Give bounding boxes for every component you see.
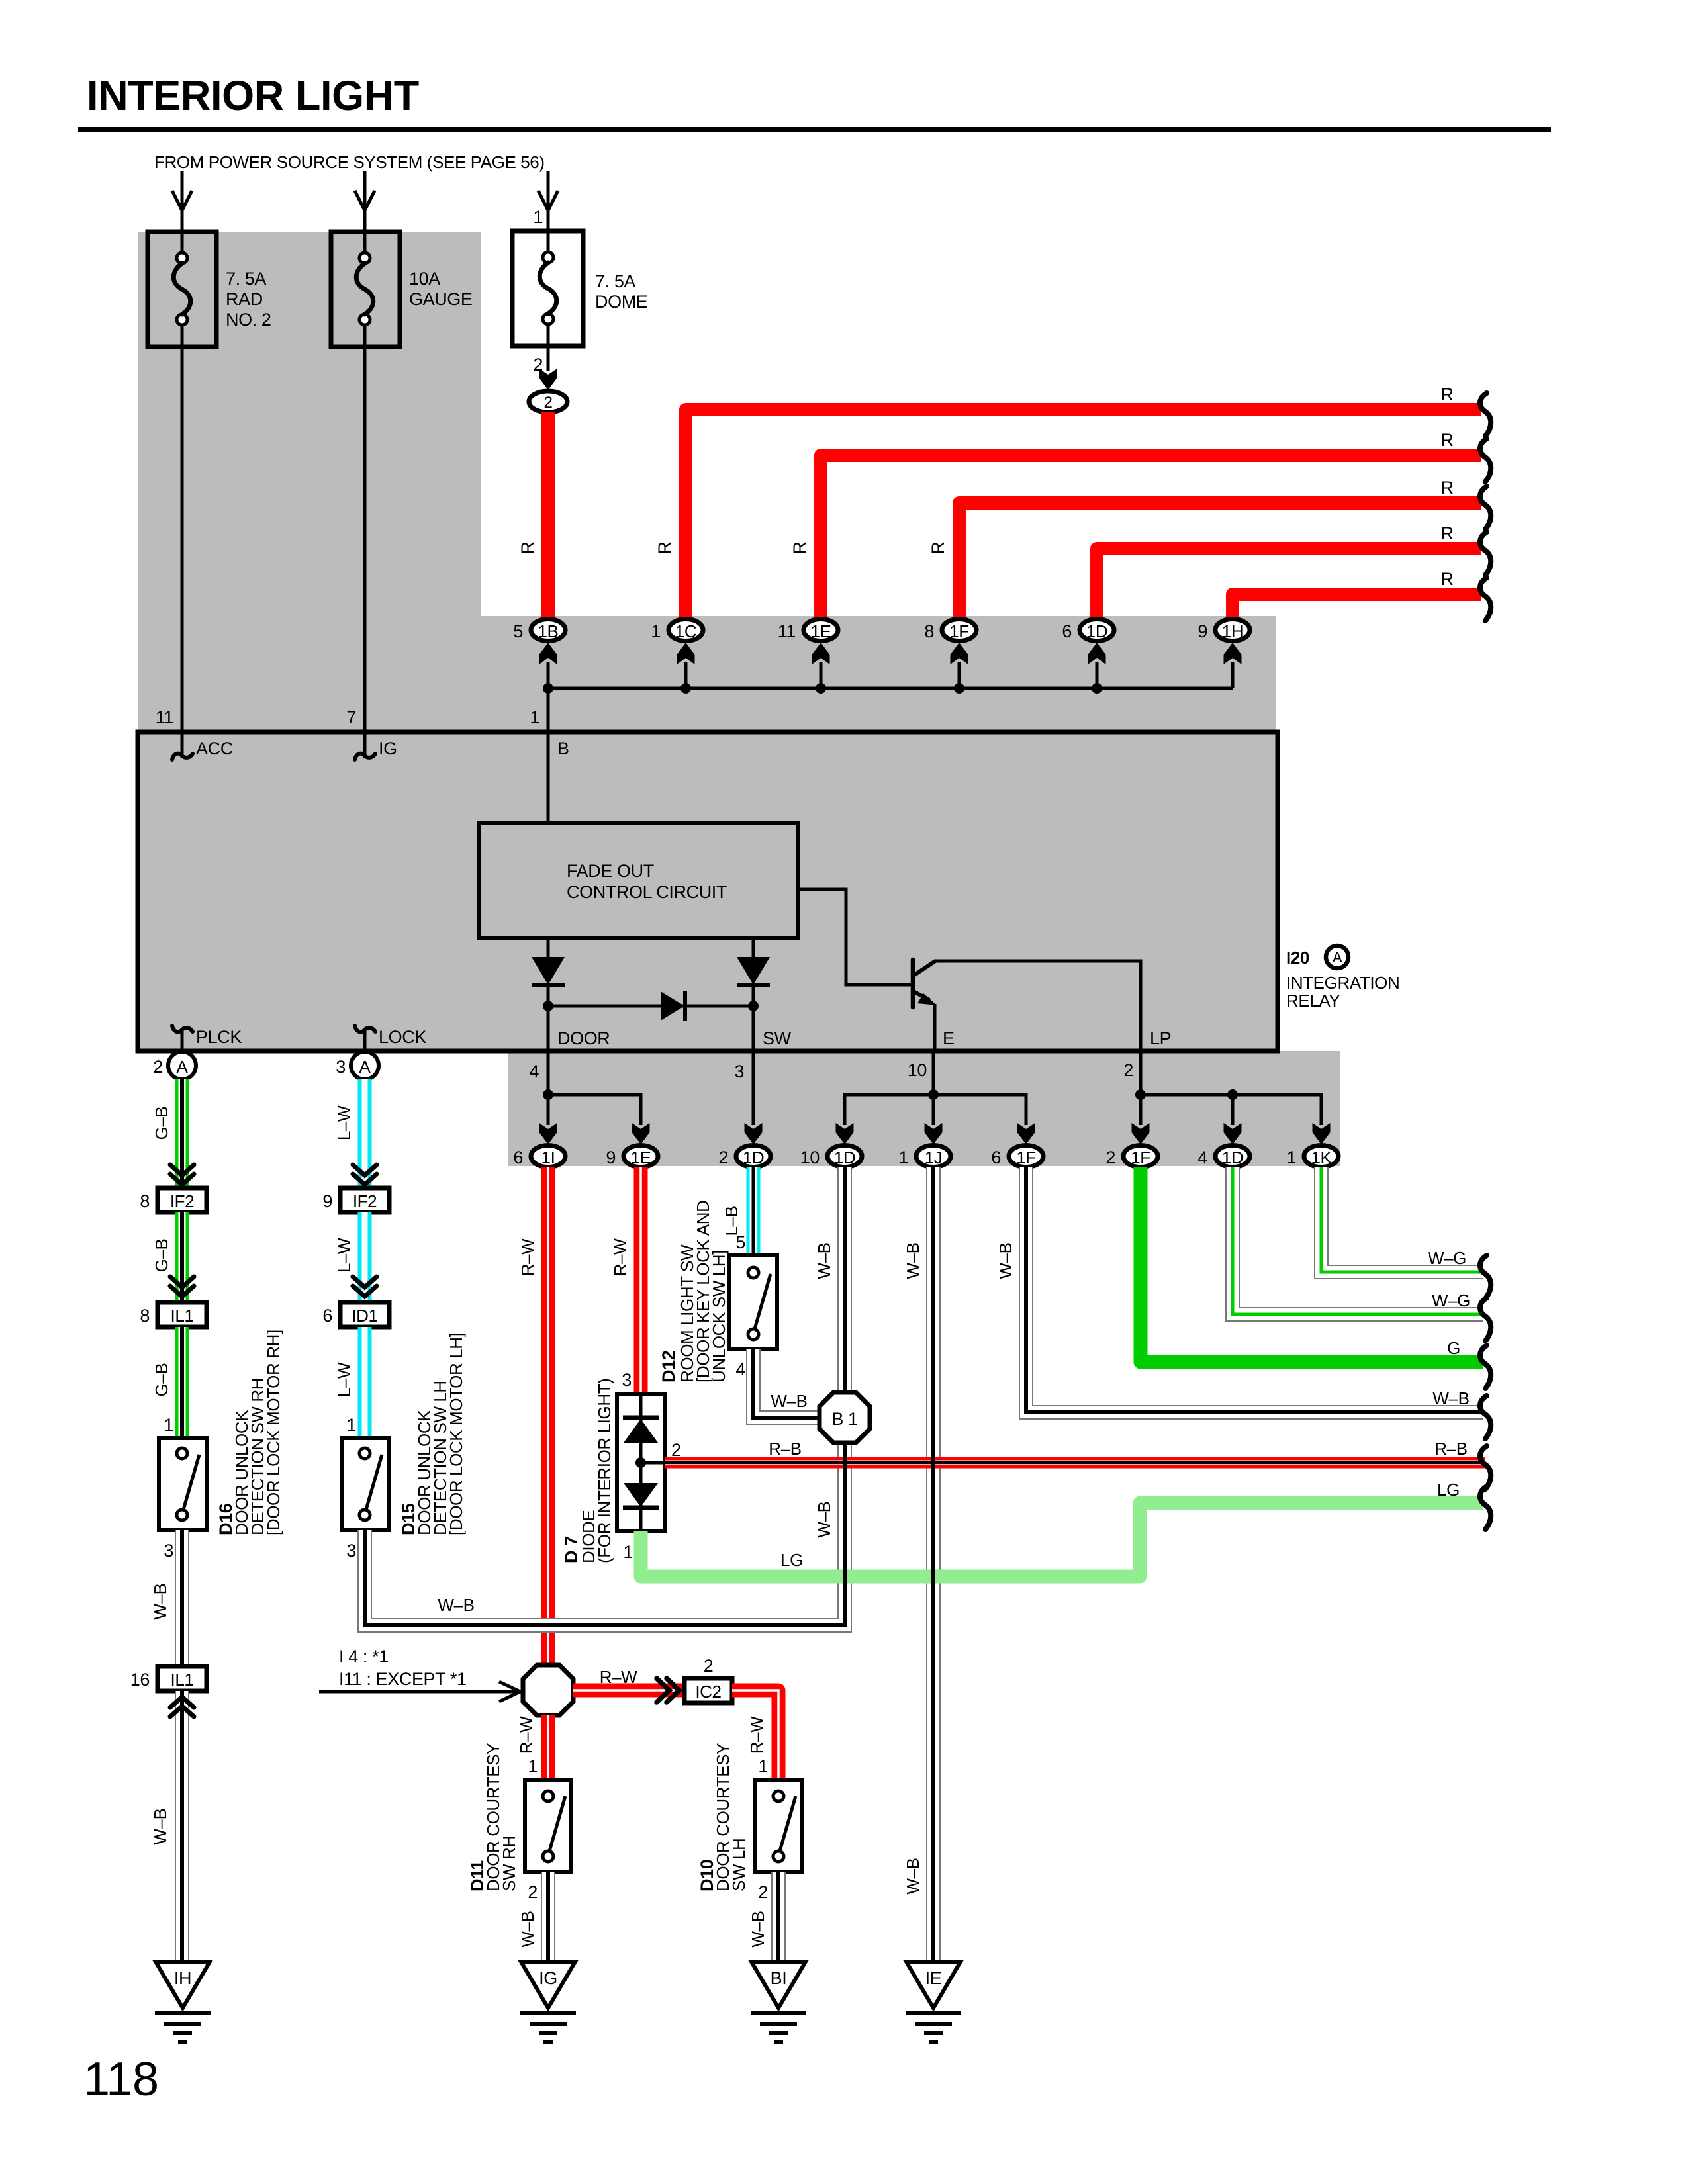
pin curl PLCK	[181, 1030, 184, 1051]
arrow into 1H	[1224, 643, 1242, 664]
connector 6 1D	[1062, 619, 1114, 642]
svg-text:W–B: W–B	[814, 1501, 834, 1537]
arrow into 1I	[539, 1123, 557, 1144]
wire R 1C branch	[686, 410, 1481, 622]
svg-text:1: 1	[623, 1542, 633, 1562]
wire R-W splice to D11	[541, 1715, 555, 1780]
connector 8 1F	[924, 619, 976, 642]
pigtail brace LG	[1480, 1486, 1491, 1529]
svg-text:6: 6	[322, 1306, 332, 1326]
junction dot LP branch	[1135, 1089, 1146, 1100]
svg-text:1K: 1K	[1311, 1148, 1332, 1167]
svg-text:1D: 1D	[743, 1148, 764, 1167]
wire R-W splice to IC2	[573, 1684, 684, 1698]
svg-text:9: 9	[322, 1191, 332, 1211]
svg-text:1J: 1J	[925, 1148, 943, 1167]
svg-text:3: 3	[346, 1541, 356, 1561]
svg-text:BI: BI	[771, 1968, 787, 1988]
svg-text:IL1: IL1	[171, 1306, 194, 1326]
switch D16 door unlock detection SW RH	[159, 1438, 207, 1530]
wire R 1D branch	[1097, 549, 1481, 622]
svg-text:W–B: W–B	[1432, 1388, 1469, 1408]
wire LP branch	[1141, 1051, 1321, 1125]
pigtail brace R3	[1480, 486, 1491, 529]
svg-text:R–W: R–W	[747, 1716, 767, 1754]
svg-text:R: R	[928, 541, 948, 554]
svg-text:ACC: ACC	[196, 739, 233, 758]
svg-text:1F: 1F	[1131, 1148, 1150, 1167]
svg-text:IF2: IF2	[170, 1191, 194, 1211]
wire power feed to fuse RAD	[172, 171, 192, 232]
chevron marker col A 2	[170, 1277, 194, 1297]
arrow into 1D sw	[745, 1123, 763, 1144]
svg-text:W–B: W–B	[996, 1242, 1015, 1279]
wire E branch	[845, 1051, 1026, 1125]
arrow into 1E	[812, 643, 830, 664]
svg-text:RAD: RAD	[226, 289, 263, 309]
svg-text:D12: D12	[659, 1351, 679, 1383]
chevron marker col A 1	[170, 1165, 194, 1185]
wire R 1F branch	[959, 503, 1481, 622]
transistor Q relay	[913, 960, 937, 1007]
arrow into 1D lp	[1224, 1123, 1242, 1144]
svg-text:W–B: W–B	[771, 1391, 807, 1411]
svg-text:W–G: W–G	[1428, 1248, 1466, 1268]
junction dot SW link	[748, 1001, 759, 1011]
arrow into 1C	[677, 643, 695, 664]
svg-text:1F: 1F	[949, 621, 969, 641]
svg-text:11: 11	[778, 621, 796, 641]
svg-text:B: B	[557, 739, 569, 758]
arrow to splice	[319, 1682, 520, 1702]
junction block 16 IL1	[130, 1666, 207, 1691]
svg-text:5: 5	[513, 621, 523, 641]
arrow into 1F	[951, 643, 968, 664]
svg-text:8: 8	[140, 1191, 150, 1211]
svg-text:IG: IG	[539, 1968, 557, 1988]
junction dot LP branch 2	[1227, 1089, 1238, 1100]
connector 9 1E	[606, 1146, 658, 1168]
svg-text:2: 2	[528, 1882, 538, 1902]
fuse 7.5A DOME	[512, 207, 647, 375]
arrow into 1B	[539, 643, 557, 664]
svg-text:ID1: ID1	[352, 1306, 377, 1326]
svg-text:L–W: L–W	[334, 1105, 354, 1140]
diode D7 for interior light	[617, 1394, 665, 1531]
wire R-W 1E down to D7	[634, 1167, 648, 1394]
gray band behind 1B-1H connector row	[481, 616, 1276, 735]
connector 5 1B	[513, 619, 565, 642]
svg-text:1: 1	[528, 1756, 538, 1776]
ground IG	[520, 1962, 576, 2042]
svg-text:SW RH: SW RH	[499, 1835, 519, 1891]
connector 2 1D	[718, 1146, 771, 1168]
wire 1F to bus	[958, 662, 961, 688]
svg-text:2: 2	[1105, 1148, 1115, 1167]
svg-text:R: R	[1440, 478, 1453, 498]
svg-text:1D: 1D	[834, 1148, 855, 1167]
wire fade box to transistor base	[798, 889, 913, 985]
svg-text:L–W: L–W	[334, 1362, 354, 1397]
wire W-B D16 down	[175, 1530, 189, 1666]
svg-text:IE: IE	[925, 1968, 942, 1988]
wire power feed to fuse GAUGE	[355, 171, 375, 232]
pigtail brace W-G2	[1480, 1298, 1491, 1341]
wire G-B seg3	[175, 1327, 189, 1438]
svg-text:4: 4	[1197, 1148, 1207, 1167]
svg-text:1C: 1C	[675, 621, 696, 641]
wire W-B D12 to B1	[753, 1349, 821, 1418]
connector 11 1E	[778, 619, 838, 642]
wire collector to LP	[934, 961, 1141, 1051]
svg-text:IF2: IF2	[353, 1191, 377, 1211]
svg-text:2: 2	[718, 1148, 728, 1167]
svg-text:1: 1	[530, 707, 539, 727]
svg-text:1E: 1E	[810, 621, 831, 641]
svg-text:G–B: G–B	[152, 1239, 171, 1273]
svg-text:118: 118	[83, 2053, 159, 2106]
chevron marker col B 2	[353, 1277, 377, 1297]
svg-text:W–B: W–B	[814, 1242, 834, 1279]
svg-text:1: 1	[1286, 1148, 1296, 1167]
wire DOOR branch	[548, 1051, 641, 1125]
pigtail brace R-B	[1480, 1446, 1491, 1489]
relay box I20	[138, 732, 1278, 1051]
junction block IC2	[684, 1656, 732, 1703]
svg-text:(FOR INTERIOR LIGHT): (FOR INTERIOR LIGHT)	[594, 1379, 614, 1563]
svg-text:[DOOR LOCK MOTOR LH]: [DOOR LOCK MOTOR LH]	[446, 1333, 466, 1535]
svg-text:3: 3	[164, 1541, 173, 1561]
svg-text:1F: 1F	[1016, 1148, 1036, 1167]
svg-text:7. 5A: 7. 5A	[226, 269, 266, 289]
svg-text:LOCK: LOCK	[379, 1027, 426, 1047]
connector 1 1J	[898, 1146, 951, 1168]
svg-text:PLCK: PLCK	[196, 1027, 242, 1047]
svg-text:I20: I20	[1286, 948, 1309, 968]
arrow into 1F lp	[1132, 1123, 1150, 1144]
connector 6 1F	[991, 1146, 1043, 1168]
svg-text:R–W: R–W	[610, 1238, 630, 1276]
svg-text:L–B: L–B	[722, 1206, 741, 1236]
svg-text:8: 8	[140, 1306, 150, 1326]
diode D relay right	[737, 957, 770, 985]
wire LG from D7 pin1	[641, 1503, 1483, 1576]
gray band below relay behind row-2 connectors	[508, 1051, 1340, 1166]
wire R 1E branch	[821, 455, 1481, 622]
svg-text:R: R	[790, 541, 810, 554]
svg-text:INTERIOR LIGHT: INTERIOR LIGHT	[87, 73, 419, 119]
svg-text:2: 2	[153, 1057, 163, 1077]
svg-text:I11 : EXCEPT *1: I11 : EXCEPT *1	[339, 1669, 467, 1689]
pigtail brace R1	[1480, 393, 1491, 436]
svg-text:1D: 1D	[1222, 1148, 1243, 1167]
wire W-G 4 1D pigtail	[1233, 1167, 1483, 1314]
svg-text:IH: IH	[174, 1968, 191, 1988]
wire SW down	[752, 1051, 755, 1125]
bus wire linking 1B..1H	[548, 687, 1233, 690]
svg-text:10: 10	[908, 1060, 927, 1080]
connector 2 1F	[1105, 1146, 1158, 1168]
wire L-W seg3	[358, 1327, 372, 1438]
wire R-W 1I down to splice	[541, 1167, 555, 1666]
splice B1	[820, 1392, 870, 1443]
svg-text:1H: 1H	[1222, 621, 1243, 641]
svg-text:GAUGE: GAUGE	[409, 289, 473, 309]
arrow into 1F e2	[1017, 1123, 1035, 1144]
svg-text:11: 11	[156, 707, 173, 727]
svg-text:6: 6	[991, 1148, 1001, 1167]
wire B to fade-out box	[547, 732, 550, 823]
svg-text:SW: SW	[763, 1028, 792, 1048]
svg-text:A: A	[1333, 949, 1342, 966]
wire W-B 6 1F pigtail	[1026, 1167, 1483, 1412]
svg-text:6: 6	[513, 1148, 523, 1167]
svg-text:LP: LP	[1150, 1028, 1171, 1048]
svg-text:2: 2	[758, 1882, 768, 1902]
switch D11 door courtesy SW RH	[525, 1780, 571, 1872]
wire W-B D11 to IG	[541, 1872, 555, 1962]
diode D series middle	[661, 991, 685, 1021]
svg-text:W–B: W–B	[748, 1911, 768, 1947]
wire L-B 1D down to D12	[747, 1167, 761, 1255]
wire W-B 1J down to IE	[926, 1167, 941, 1962]
svg-text:INTEGRATION: INTEGRATION	[1286, 973, 1399, 993]
svg-text:A: A	[177, 1057, 189, 1077]
pigtail brace G	[1480, 1345, 1491, 1388]
arrow into 1D	[1088, 643, 1106, 664]
wire fade box to diode2	[752, 938, 755, 957]
svg-text:10: 10	[800, 1148, 820, 1167]
junction dot 1F	[954, 683, 964, 694]
wire fade box to diode1	[547, 938, 550, 957]
wire R-W IC2 to D10	[732, 1690, 778, 1780]
connector 10 1D	[800, 1146, 862, 1168]
svg-text:R–B: R–B	[769, 1439, 801, 1459]
wire ACC feed from fuse RAD	[181, 347, 184, 732]
wire 1H to bus	[1231, 662, 1235, 688]
pigtail brace R4	[1480, 532, 1491, 575]
wire 1B to bus	[547, 662, 550, 732]
arrow into 1D e1	[836, 1123, 854, 1144]
wire DOOR-SW link	[548, 1005, 753, 1008]
wire 1C to bus	[684, 662, 688, 688]
switch D10 door courtesy SW LH	[755, 1780, 802, 1872]
wire 1D to bus	[1096, 662, 1099, 688]
connector 1 1C	[651, 619, 703, 642]
svg-text:R: R	[1440, 569, 1453, 589]
svg-text:A: A	[359, 1057, 371, 1077]
svg-text:R: R	[1440, 523, 1453, 543]
svg-text:16: 16	[130, 1670, 150, 1690]
svg-text:G: G	[1447, 1338, 1460, 1358]
svg-text:B 1: B 1	[831, 1409, 857, 1429]
fuse 7.5A RAD NO.2	[148, 232, 271, 347]
svg-text:4: 4	[735, 1359, 745, 1379]
pin curl IG	[363, 732, 367, 758]
connector 4 1D	[1197, 1146, 1250, 1168]
svg-text:1: 1	[346, 1415, 356, 1435]
wire power feed to fuse DOME	[538, 171, 558, 232]
wire crossing patches W-B over R-B/LG	[845, 1451, 933, 1588]
junction dot DOOR branch	[543, 1089, 553, 1100]
svg-text:7. 5A: 7. 5A	[595, 271, 635, 291]
svg-text:2: 2	[704, 1656, 714, 1676]
wire 1E to bus	[820, 662, 823, 688]
wire R from connector 2 to 1B	[541, 412, 555, 621]
svg-text:W–B: W–B	[518, 1911, 538, 1947]
splice octagon I4/I11	[523, 1665, 573, 1715]
svg-text:2: 2	[1123, 1060, 1133, 1080]
chevron marker up col A	[170, 1697, 194, 1717]
wire W-B 10 1D down to B1	[837, 1167, 852, 1392]
svg-text:5: 5	[735, 1232, 745, 1252]
wire W-G 1 1K pigtail	[1321, 1167, 1483, 1272]
annotation I20 INTEGRATION RELAY	[1286, 946, 1399, 1011]
wire DOME pin2 stub	[547, 346, 550, 371]
gray block left fuse column	[138, 232, 481, 735]
chevron marker IC2	[657, 1678, 679, 1702]
junction dot 1D	[1092, 683, 1102, 694]
svg-text:UNLOCK SW LH]: UNLOCK SW LH]	[709, 1250, 729, 1383]
svg-text:R–B: R–B	[1434, 1439, 1467, 1459]
wire L-W seg1	[358, 1079, 372, 1188]
svg-text:DOME: DOME	[595, 292, 647, 312]
arrow into 1J	[925, 1123, 943, 1144]
svg-text:1B: 1B	[538, 621, 558, 641]
chevron marker col B 1	[353, 1165, 377, 1185]
svg-text:W–B: W–B	[438, 1595, 474, 1615]
wire G-B seg2	[175, 1212, 189, 1302]
connector 1 1K	[1286, 1146, 1338, 1168]
svg-text:IL1: IL1	[171, 1670, 194, 1690]
svg-text:L–W: L–W	[334, 1238, 354, 1273]
svg-text:W–B: W–B	[903, 1858, 923, 1894]
wire W-B D10 to BI	[771, 1872, 786, 1962]
svg-text:W–G: W–G	[1432, 1291, 1470, 1310]
svg-text:9: 9	[1197, 621, 1207, 641]
arrow into 1E row2	[632, 1123, 650, 1144]
fuse 10A GAUGE	[331, 232, 473, 347]
svg-text:R–W: R–W	[518, 1238, 538, 1276]
svg-text:LG: LG	[780, 1550, 803, 1570]
ground BI	[751, 1962, 806, 2042]
svg-text:2: 2	[544, 394, 553, 412]
svg-text:LG: LG	[1437, 1480, 1460, 1500]
title rule	[78, 127, 1551, 132]
pin 3 A LOCK connector	[336, 1052, 379, 1079]
switch D12 room light SW	[729, 1255, 777, 1349]
connector oval 2	[529, 391, 567, 412]
ground IE	[906, 1962, 961, 2042]
pigtail brace R5	[1480, 578, 1491, 621]
wire G 2 1F pigtail	[1141, 1167, 1483, 1362]
pigtail brace W-G1	[1480, 1255, 1491, 1298]
arrow into 1K	[1313, 1123, 1331, 1144]
junction dot 1C	[680, 683, 691, 694]
wire R 1H branch	[1233, 594, 1481, 622]
svg-text:1E: 1E	[630, 1148, 651, 1167]
junction dot E branch	[928, 1089, 939, 1100]
svg-text:10A: 10A	[409, 269, 440, 289]
svg-text:FROM POWER SOURCE SYSTEM (SEE: FROM POWER SOURCE SYSTEM (SEE PAGE 56)	[154, 152, 545, 172]
svg-text:1: 1	[651, 621, 661, 641]
svg-text:3: 3	[336, 1057, 346, 1077]
svg-text:1: 1	[164, 1415, 173, 1435]
svg-text:RELAY: RELAY	[1286, 991, 1340, 1011]
junction dot 1B	[543, 683, 553, 694]
svg-text:1D: 1D	[1086, 621, 1107, 641]
switch D15 door unlock detection SW LH	[342, 1438, 389, 1530]
wire G-B seg1	[175, 1079, 189, 1188]
svg-text:4: 4	[529, 1062, 539, 1081]
wire crossing patch W-B horizontal over R-W	[536, 1618, 560, 1633]
svg-text:FADE OUT: FADE OUT	[567, 861, 654, 881]
pigtail brace W-B	[1480, 1396, 1491, 1439]
svg-text:R: R	[1440, 385, 1453, 404]
connector 9 1H	[1197, 619, 1250, 642]
svg-text:SW LH: SW LH	[729, 1839, 749, 1891]
pin curl LOCK	[363, 1030, 367, 1051]
svg-text:CONTROL CIRCUIT: CONTROL CIRCUIT	[567, 882, 727, 902]
arrow into connector 2	[539, 369, 557, 390]
svg-text:E: E	[943, 1028, 955, 1048]
junction block 8 IF2	[140, 1188, 207, 1212]
svg-text:W–B: W–B	[903, 1242, 923, 1279]
svg-text:R–W: R–W	[600, 1667, 637, 1687]
svg-text:IC2: IC2	[695, 1682, 721, 1702]
wire IG feed from fuse GAUGE	[363, 347, 367, 732]
pigtail brace R2	[1480, 439, 1491, 482]
junction dot DOOR link	[543, 1001, 553, 1011]
diode D relay left	[532, 957, 565, 985]
wire W-B IL1 to IH	[175, 1691, 189, 1962]
wire emitter to E pin	[933, 1004, 937, 1051]
svg-text:8: 8	[924, 621, 934, 641]
wire W-B D15 to B1 route	[365, 1443, 845, 1625]
svg-text:I 4 : *1: I 4 : *1	[339, 1647, 389, 1666]
pin curl ACC	[181, 732, 184, 758]
fade out control circuit box	[479, 823, 798, 938]
svg-text:3: 3	[622, 1370, 632, 1390]
svg-text:G–B: G–B	[152, 1107, 171, 1140]
svg-text:[DOOR LOCK MOTOR RH]: [DOOR LOCK MOTOR RH]	[263, 1330, 283, 1535]
svg-text:G–B: G–B	[152, 1363, 171, 1397]
svg-text:W–B: W–B	[150, 1583, 170, 1619]
wire L-W seg2	[358, 1212, 372, 1302]
svg-text:9: 9	[606, 1148, 616, 1167]
svg-text:3: 3	[734, 1062, 744, 1081]
ground IH	[155, 1962, 211, 2042]
svg-text:1: 1	[533, 207, 543, 227]
junction block 8 IL1	[140, 1302, 207, 1327]
svg-text:1: 1	[758, 1756, 768, 1776]
svg-text:IG: IG	[379, 739, 397, 758]
svg-text:1: 1	[898, 1148, 908, 1167]
svg-text:R: R	[518, 541, 538, 554]
pin 2 A PLCK connector	[153, 1052, 196, 1079]
wire diode1 to DOOR pin	[547, 985, 550, 1051]
svg-text:6: 6	[1062, 621, 1072, 641]
svg-text:R–W: R–W	[516, 1716, 536, 1754]
svg-text:DOOR: DOOR	[557, 1028, 610, 1048]
wire R-B from D7	[665, 1457, 1485, 1469]
svg-text:W–B: W–B	[150, 1808, 170, 1844]
svg-text:R: R	[1440, 430, 1453, 450]
wire diode2 to SW pin	[752, 985, 755, 1051]
connector 6 1I	[513, 1146, 565, 1168]
svg-text:7: 7	[346, 707, 356, 727]
svg-text:R: R	[655, 541, 675, 554]
